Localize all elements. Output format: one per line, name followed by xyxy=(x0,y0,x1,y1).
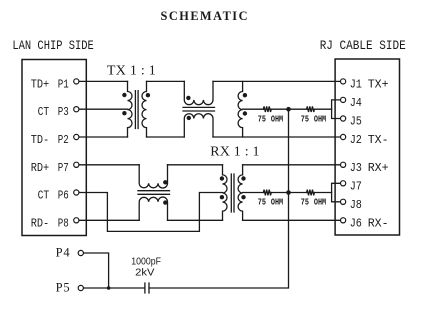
wire T1 to choke L1 bottom xyxy=(147,136,185,138)
wire P8 to choke L3 xyxy=(79,219,139,221)
svg-text:CT: CT xyxy=(38,189,50,203)
choke L3 top winding xyxy=(139,165,167,188)
wire P6 bypass to T2 center tap xyxy=(79,193,223,232)
svg-text:J4: J4 xyxy=(350,96,362,110)
transformer T1 primary winding xyxy=(128,81,133,137)
junction TX resistors xyxy=(286,107,291,112)
wire choke to J2 xyxy=(213,136,341,138)
choke L3 bottom winding xyxy=(139,197,167,220)
svg-text:P8: P8 xyxy=(58,216,69,230)
dot T1 secondary top xyxy=(146,93,150,97)
svg-text:J2: J2 xyxy=(350,133,362,147)
svg-text:75: 75 xyxy=(301,198,309,208)
termination winding L2 xyxy=(238,81,243,137)
wire T2 to J6 xyxy=(243,219,341,221)
pin P6 xyxy=(74,190,79,195)
capacitor C1 plates xyxy=(145,283,149,293)
pin P5 xyxy=(78,285,83,290)
left box (LAN chip) xyxy=(22,60,86,236)
wire P1 to T1 xyxy=(79,80,128,82)
dot choke L1 bottom xyxy=(187,116,191,120)
choke L1 core xyxy=(183,107,215,111)
svg-text:RX-: RX- xyxy=(368,216,389,230)
svg-text:RJ CABLE SIDE: RJ CABLE SIDE xyxy=(320,38,406,53)
svg-text:P5: P5 xyxy=(56,281,70,295)
wire R3 to R4 xyxy=(272,192,307,194)
svg-text:P7: P7 xyxy=(58,161,69,175)
pin J5 xyxy=(341,116,346,121)
transformer T1 secondary winding xyxy=(142,81,147,137)
wire L2 tap to R1 xyxy=(243,108,264,110)
svg-text:RX 1 : 1: RX 1 : 1 xyxy=(210,145,259,160)
wire P2 to T1 xyxy=(79,136,128,138)
svg-text:TD-: TD- xyxy=(31,133,50,147)
svg-text:1000pF: 1000pF xyxy=(131,257,161,268)
wire R2 to J4/J5 bracket xyxy=(315,108,332,110)
dot T1 primary mid xyxy=(122,111,126,115)
svg-text:TX 1 : 1: TX 1 : 1 xyxy=(107,64,156,79)
bracket J4 J5 xyxy=(332,100,341,119)
transformer T2 secondary winding xyxy=(238,165,243,221)
svg-text:J3: J3 xyxy=(350,161,362,175)
pin J3 xyxy=(341,162,346,167)
wire P3 center tap xyxy=(79,108,128,110)
transformer T2 core xyxy=(231,174,234,212)
svg-text:TX+: TX+ xyxy=(368,77,389,91)
ground bus wire xyxy=(149,109,289,288)
pin P1 xyxy=(74,79,79,84)
pin P4 xyxy=(78,250,83,255)
svg-text:OHM: OHM xyxy=(271,198,283,208)
pin J1 xyxy=(341,79,346,84)
wire P4 xyxy=(83,253,108,288)
svg-text:SCHEMATIC: SCHEMATIC xyxy=(161,9,248,23)
svg-text:OHM: OHM xyxy=(314,198,326,208)
resistor R1 xyxy=(263,106,271,112)
svg-text:P3: P3 xyxy=(58,105,69,119)
dot choke L1 top xyxy=(186,96,190,100)
wire P5 to capacitor C1 xyxy=(83,287,144,289)
dot L2 top xyxy=(243,93,247,97)
junction P4/P5 xyxy=(107,286,111,290)
wire R1 to R2 xyxy=(272,108,307,110)
svg-text:P6: P6 xyxy=(58,189,69,203)
pin P7 xyxy=(74,162,79,167)
svg-text:75: 75 xyxy=(258,198,266,208)
svg-text:TX-: TX- xyxy=(368,133,389,147)
choke L3 core xyxy=(138,191,170,195)
svg-text:J8: J8 xyxy=(350,198,362,212)
wire choke to J1 xyxy=(213,80,341,82)
svg-text:RX+: RX+ xyxy=(368,161,389,175)
right box (RJ cable) xyxy=(335,59,399,235)
pin P2 xyxy=(74,134,79,139)
wire T1 to choke L1 top xyxy=(147,80,185,82)
pin P8 xyxy=(74,218,79,223)
svg-text:P4: P4 xyxy=(56,246,71,260)
svg-text:RD-: RD- xyxy=(31,216,50,230)
dot T2 secondary mid xyxy=(241,195,245,199)
bracket J7 J8 xyxy=(332,183,341,202)
svg-text:TD+: TD+ xyxy=(31,77,50,91)
pin J4 xyxy=(341,97,346,102)
svg-text:J1: J1 xyxy=(350,77,362,91)
pin P3 xyxy=(74,107,79,112)
pin J6 xyxy=(341,218,346,223)
choke L1 top winding xyxy=(184,81,213,104)
transformer T1 core xyxy=(135,91,138,129)
dot T1 primary top xyxy=(122,93,126,97)
svg-text:OHM: OHM xyxy=(271,114,283,124)
svg-text:J6: J6 xyxy=(350,216,362,230)
svg-text:J7: J7 xyxy=(350,179,362,193)
wire P7 to choke L3 xyxy=(79,164,139,166)
pin J8 xyxy=(341,199,346,204)
svg-text:75: 75 xyxy=(258,114,266,124)
svg-text:RD+: RD+ xyxy=(31,161,50,175)
svg-text:CT: CT xyxy=(38,105,50,119)
wire choke L3 to T2 top xyxy=(168,164,223,166)
resistor R2 xyxy=(307,106,315,112)
pin J2 xyxy=(341,134,346,139)
wire T2 tap to R3 xyxy=(243,192,264,194)
junction RX resistors xyxy=(286,190,291,195)
transformer T2 primary winding xyxy=(223,165,228,221)
resistor R4 xyxy=(307,190,315,196)
dot choke L3 bottom xyxy=(163,200,167,204)
dot L2 mid xyxy=(243,111,247,115)
svg-text:LAN CHIP SIDE: LAN CHIP SIDE xyxy=(12,38,94,53)
dot choke L3 top xyxy=(163,180,167,184)
wire choke L3 to T2 bottom xyxy=(168,219,223,221)
wire T2 to J3 xyxy=(243,164,341,166)
wire R4 to J7/J8 bracket xyxy=(315,192,332,194)
svg-text:75: 75 xyxy=(301,114,309,124)
choke L1 bottom winding xyxy=(184,114,213,137)
svg-text:2kV: 2kV xyxy=(135,267,155,278)
svg-text:OHM: OHM xyxy=(314,114,326,124)
resistor R3 xyxy=(263,190,271,196)
svg-text:P1: P1 xyxy=(58,77,69,91)
pin J7 xyxy=(341,181,346,186)
dot T2 secondary top xyxy=(241,176,245,180)
dot T2 primary top xyxy=(220,176,224,180)
svg-text:J5: J5 xyxy=(350,115,362,129)
dot T2 primary mid xyxy=(220,195,224,199)
svg-text:P2: P2 xyxy=(58,133,69,147)
